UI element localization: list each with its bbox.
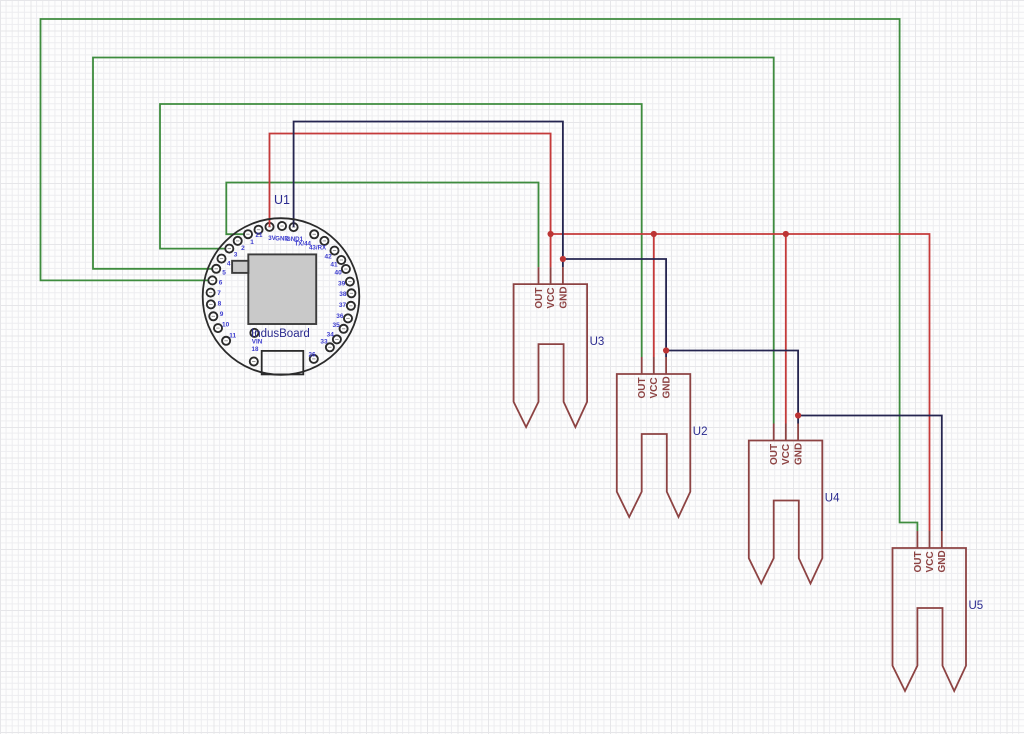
- svg-text:35: 35: [332, 322, 340, 329]
- wire tip into pad 3V: [269, 222, 271, 227]
- wire GND bus to U4 GND (navy): [666, 351, 798, 424]
- wire net OUT4: U1 pad 1 to U3 OUT (green): [226, 183, 538, 268]
- svg-text:GND: GND: [937, 550, 948, 572]
- pin VCC stub: [785, 424, 787, 441]
- board outline circle: [203, 218, 360, 375]
- junction VCC net: [651, 231, 657, 237]
- svg-text:GND: GND: [794, 443, 805, 465]
- svg-text:26: 26: [309, 351, 316, 358]
- pin GND stub: [941, 531, 943, 548]
- pin VCC stub: [653, 357, 655, 374]
- svg-text:U4: U4: [825, 493, 840, 505]
- wire VCC drop to U2 (red): [653, 234, 655, 357]
- pin GND stub: [665, 357, 667, 374]
- svg-text:GND: GND: [662, 376, 673, 398]
- wire VCC bus to U5 VCC (red): [551, 234, 930, 531]
- pad 10: [214, 322, 230, 333]
- pad 35: [332, 322, 347, 333]
- pad TX/44: [294, 230, 318, 247]
- wire GND bus to U2 GND (navy): [563, 259, 666, 357]
- svg-text:U2: U2: [693, 426, 708, 438]
- pad 4: [217, 255, 230, 268]
- svg-text:21: 21: [256, 232, 263, 239]
- pin GND stub: [562, 267, 564, 284]
- junction VCC net: [783, 231, 789, 237]
- IndusBoard module U1: [203, 193, 360, 375]
- pin OUT stub: [773, 424, 775, 441]
- wire tip into pad GND1: [293, 222, 295, 227]
- svg-text:6: 6: [219, 280, 223, 287]
- pin OUT stub: [916, 531, 918, 548]
- svg-text:37: 37: [339, 302, 347, 309]
- pad 7: [207, 289, 222, 298]
- soil moisture sensor U3: [514, 267, 605, 427]
- svg-text:VCC: VCC: [781, 444, 792, 465]
- pad 38: [339, 289, 355, 298]
- svg-text:41: 41: [330, 262, 338, 269]
- pin VCC stub: [550, 267, 552, 284]
- svg-text:U1: U1: [274, 193, 290, 207]
- wire net OUT3: U1 pad 3 to U2 OUT (green): [160, 104, 642, 357]
- sensor body outline: [617, 374, 691, 517]
- junction VCC net: [548, 231, 554, 237]
- pad 37: [339, 302, 355, 310]
- pad 21: [254, 226, 263, 240]
- pad 26: [309, 351, 318, 363]
- svg-text:VCC: VCC: [546, 287, 557, 308]
- svg-text:1: 1: [250, 239, 254, 246]
- svg-text:OUT: OUT: [534, 287, 545, 308]
- svg-text:U3: U3: [590, 336, 605, 348]
- pad 3V: [265, 223, 276, 242]
- pad 2: [234, 237, 245, 252]
- svg-text:36: 36: [336, 313, 344, 320]
- pad 9: [209, 311, 223, 320]
- sensor body outline: [514, 284, 588, 427]
- pad 39: [338, 278, 354, 288]
- svg-text:40: 40: [334, 270, 342, 277]
- svg-text:43/RX: 43/RX: [309, 244, 327, 251]
- pad 34: [327, 331, 341, 343]
- svg-text:42: 42: [324, 253, 332, 260]
- pad GND: [275, 222, 289, 243]
- pad 18: [250, 346, 259, 365]
- wire VCC drop to U4 (red): [785, 234, 787, 424]
- pad 8: [207, 300, 222, 308]
- svg-text:10: 10: [222, 322, 230, 329]
- pad 5: [212, 265, 226, 277]
- svg-text:38: 38: [339, 291, 347, 298]
- junction GND net: [560, 256, 566, 262]
- svg-text:OUT: OUT: [913, 551, 924, 572]
- svg-text:33: 33: [320, 338, 328, 345]
- svg-text:OUT: OUT: [637, 377, 648, 398]
- svg-text:OUT: OUT: [769, 444, 780, 465]
- svg-text:4: 4: [227, 260, 231, 267]
- pin VCC stub: [929, 531, 931, 548]
- pad 41: [330, 256, 345, 269]
- pad 1: [244, 230, 254, 246]
- svg-text:34: 34: [327, 331, 335, 338]
- junction GND net: [795, 412, 801, 418]
- wire net OUT2: U1 pad 5 to U4 OUT (green): [93, 58, 774, 424]
- svg-text:8: 8: [218, 301, 222, 308]
- svg-text:11: 11: [229, 333, 236, 340]
- sensor body outline: [749, 441, 823, 584]
- pad 11: [222, 333, 236, 345]
- pad 3: [225, 245, 237, 259]
- svg-text:39: 39: [338, 281, 346, 288]
- pad 40: [334, 265, 349, 277]
- soil moisture sensor U4: [749, 424, 840, 584]
- svg-text:VCC: VCC: [649, 377, 660, 398]
- svg-text:IndusBoard: IndusBoard: [251, 328, 310, 340]
- pad 36: [336, 313, 352, 322]
- junction GND net: [663, 347, 669, 353]
- wire net GND: U1 pad GND1 to U3 GND (navy): [294, 122, 563, 268]
- pad 42: [324, 247, 338, 261]
- svg-text:VCC: VCC: [925, 551, 936, 572]
- soil moisture sensor U5: [893, 531, 984, 691]
- USB connector: [262, 351, 304, 375]
- svg-text:18: 18: [252, 346, 259, 353]
- svg-text:U5: U5: [969, 600, 984, 612]
- svg-text:9: 9: [220, 311, 224, 318]
- sensor body outline: [893, 548, 967, 691]
- wire GND bus to U5 GND (navy): [798, 416, 942, 532]
- pad GND1: [286, 223, 304, 243]
- svg-text:3V: 3V: [268, 235, 276, 242]
- svg-text:2: 2: [241, 245, 245, 252]
- pad 33: [320, 338, 334, 351]
- pin OUT stub: [641, 357, 643, 374]
- pin OUT stub: [538, 267, 540, 284]
- MCU chip square: [248, 254, 316, 324]
- wire net OUT1: U1 pad 6 to U5 OUT (green): [41, 19, 918, 531]
- pad VIN: [250, 329, 262, 346]
- crystal block: [232, 261, 248, 273]
- pad 43/RX: [309, 237, 328, 252]
- svg-text:3: 3: [234, 252, 238, 259]
- svg-text:GND: GND: [558, 286, 569, 308]
- soil moisture sensor U2: [617, 357, 708, 517]
- svg-text:5: 5: [222, 269, 226, 276]
- wire net 3V: U1 pad 3V to U3 VCC (red): [270, 134, 551, 268]
- pad 6: [208, 276, 222, 286]
- pin GND stub: [797, 424, 799, 441]
- svg-text:7: 7: [217, 290, 221, 297]
